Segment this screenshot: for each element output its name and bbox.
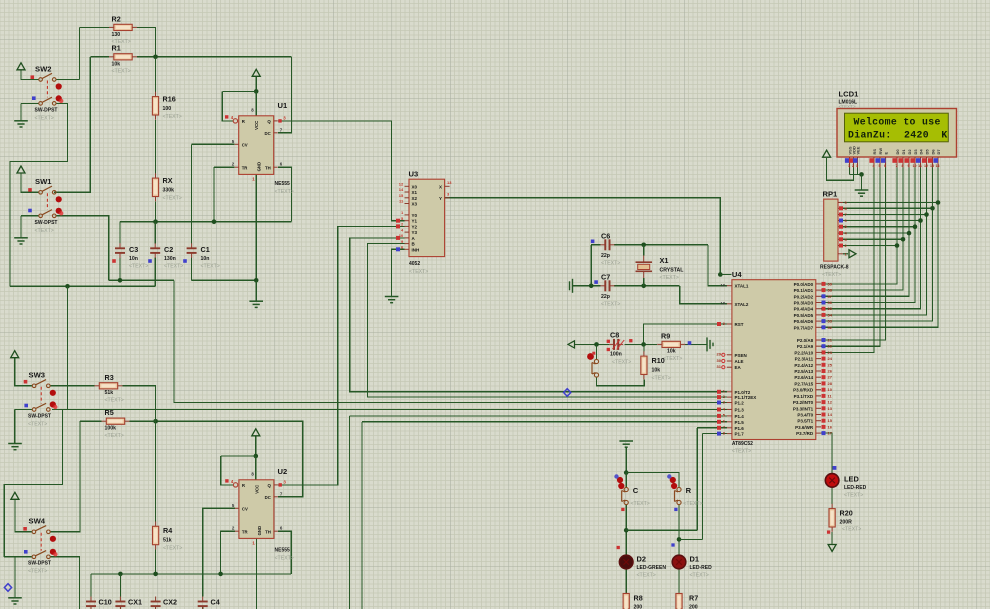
wire U1 Q to U3 Y1 xyxy=(278,121,405,221)
ground terminal below R20 xyxy=(828,545,836,552)
svg-text:P3.5/T1: P3.5/T1 xyxy=(797,419,813,424)
svg-text:15: 15 xyxy=(828,418,833,423)
wire C2 bottom xyxy=(154,258,156,287)
switch SW4 SW-DPST xyxy=(32,526,58,559)
svg-text:DC: DC xyxy=(264,131,270,136)
wire to U2 R bubble xyxy=(221,456,234,485)
svg-text:100: 100 xyxy=(163,106,172,112)
svg-text:<TEXT>: <TEXT> xyxy=(732,449,751,455)
wire U2 TR down xyxy=(221,531,235,574)
capacitor C4 xyxy=(198,597,208,609)
wire ground to C7 xyxy=(573,285,601,287)
svg-text:TR: TR xyxy=(242,529,249,534)
svg-text:XTAL1: XTAL1 xyxy=(735,284,749,289)
svg-text:<TEXT>: <TEXT> xyxy=(163,114,182,120)
svg-text:38: 38 xyxy=(828,288,833,293)
svg-text:200: 200 xyxy=(689,605,698,609)
wire SW3 pole1 to R3 xyxy=(50,385,94,387)
junction RST node xyxy=(641,342,646,347)
push button R xyxy=(675,487,682,504)
svg-text:10n: 10n xyxy=(129,256,138,262)
junction D3/RP1 xyxy=(913,224,918,229)
wire bottom capacitor row xyxy=(91,573,291,575)
svg-text:<TEXT>: <TEXT> xyxy=(601,261,620,267)
junction RX bottom xyxy=(153,219,158,224)
wire SW3 arrow to pole1 xyxy=(15,358,33,386)
svg-text:TR: TR xyxy=(242,165,249,170)
svg-text:D2: D2 xyxy=(637,555,646,564)
svg-text:R1: R1 xyxy=(112,44,121,53)
svg-text:AT89C52: AT89C52 xyxy=(732,441,753,447)
wire down to R16 xyxy=(155,57,157,92)
svg-text:14: 14 xyxy=(828,412,833,417)
svg-text:TH: TH xyxy=(265,165,271,170)
svg-text:15: 15 xyxy=(399,193,404,198)
svg-text:<TEXT>: <TEXT> xyxy=(839,104,856,109)
capacitor CX1 xyxy=(115,597,125,609)
svg-text:19: 19 xyxy=(721,283,726,288)
wire P1.4 drop to edge xyxy=(349,416,351,609)
svg-text:10k: 10k xyxy=(112,62,121,68)
capacitor C6 xyxy=(600,239,614,250)
wire VDD to power arrow xyxy=(827,158,854,180)
svg-text:22p: 22p xyxy=(601,294,610,300)
svg-text:CX2: CX2 xyxy=(163,598,177,607)
wire LCD D5 to U4 P0.5 xyxy=(821,168,927,315)
wire U3 Y2 to U2 Q xyxy=(278,226,405,485)
U2 pin names xyxy=(242,483,272,535)
LED LED xyxy=(825,474,839,488)
svg-text:X2: X2 xyxy=(412,196,418,201)
wire CX2 bottom stub xyxy=(155,606,157,609)
wire U2 CV to C4 xyxy=(203,508,235,596)
resistor R20 xyxy=(829,504,835,532)
svg-text:<TEXT>: <TEXT> xyxy=(822,272,841,278)
resistor R1 xyxy=(109,54,137,60)
wire C7 right xyxy=(614,285,680,287)
junction D6/RP1 xyxy=(930,206,935,211)
wire to U1 R pin bubble xyxy=(222,91,233,121)
svg-text:U4: U4 xyxy=(732,270,742,279)
wire SW2 arrow to pole1 xyxy=(21,70,39,80)
wire RP1 pin1 to power arrow xyxy=(843,253,848,255)
svg-text:100k: 100k xyxy=(105,426,117,432)
svg-text:D4: D4 xyxy=(918,149,923,155)
resistor R8 xyxy=(623,593,629,609)
svg-text:<TEXT>: <TEXT> xyxy=(612,360,631,366)
svg-text:330k: 330k xyxy=(163,188,175,194)
svg-text:X1: X1 xyxy=(660,256,669,265)
svg-text:Y0: Y0 xyxy=(412,213,418,218)
wire RP1 pin 7 to D5 bus xyxy=(843,214,927,216)
svg-text:<TEXT>: <TEXT> xyxy=(35,228,54,234)
svg-text:SW1: SW1 xyxy=(35,177,52,186)
wire button bottom to R10 bottom xyxy=(597,377,645,386)
capacitor C1 xyxy=(187,243,197,258)
svg-text:C8: C8 xyxy=(610,331,619,340)
wire U4 P1.4 row xyxy=(350,415,727,417)
svg-text:PSEN: PSEN xyxy=(735,353,747,358)
wire P1.5 drop to edge xyxy=(361,422,363,609)
svg-text:36: 36 xyxy=(828,300,833,305)
LCD pin labels xyxy=(847,146,941,155)
svg-text:11: 11 xyxy=(918,164,922,168)
svg-text:GND: GND xyxy=(257,526,262,536)
wire long run to U4 P1.2 xyxy=(174,280,727,402)
svg-text:P0.2/AD2: P0.2/AD2 xyxy=(794,294,814,299)
svg-text:200: 200 xyxy=(634,605,643,609)
svg-text:130: 130 xyxy=(112,32,121,38)
wire LCD D3 to U4 P0.3 xyxy=(821,168,915,303)
wire button ground stem xyxy=(625,448,627,473)
wire U2 power arrow stem xyxy=(255,436,257,456)
svg-text:P1.3: P1.3 xyxy=(735,408,745,413)
svg-text:D0: D0 xyxy=(895,149,900,155)
junction Y wire corner xyxy=(718,272,723,277)
svg-text:<TEXT>: <TEXT> xyxy=(690,573,709,579)
junction D5/RP1 xyxy=(924,212,929,217)
power terminal above U1 xyxy=(252,69,260,76)
svg-text:RS: RS xyxy=(872,149,877,155)
wire U1 TR left xyxy=(214,166,235,168)
svg-text:D1: D1 xyxy=(901,149,906,155)
svg-text:LED: LED xyxy=(844,475,859,484)
junction D0/RP1 xyxy=(895,243,900,248)
wire U3 B to U4 P1.1 xyxy=(368,244,727,398)
svg-text:C10: C10 xyxy=(99,598,112,607)
svg-text:P1.2: P1.2 xyxy=(735,401,745,406)
power terminal above SW2 xyxy=(17,63,25,70)
wire RP1 pin 5 to D3 bus xyxy=(843,226,915,228)
svg-text:130n: 130n xyxy=(164,256,176,262)
svg-text:GND: GND xyxy=(257,162,262,172)
svg-text:CRYSTAL: CRYSTAL xyxy=(660,268,685,274)
svg-text:LED-RED: LED-RED xyxy=(690,565,713,571)
power terminal at RP1 pin1 xyxy=(849,250,856,258)
svg-text:9: 9 xyxy=(908,164,910,168)
wire C10 top lead xyxy=(90,574,92,597)
wire SW3 pole2 left xyxy=(15,409,33,411)
svg-text:<TEXT>: <TEXT> xyxy=(409,269,428,275)
wire U4 P3.7 to LED xyxy=(821,433,832,473)
svg-text:<TEXT>: <TEXT> xyxy=(842,527,861,533)
wire R5 to node xyxy=(130,420,156,422)
wire U1 TH down xyxy=(278,167,292,222)
svg-text:NE555: NE555 xyxy=(275,548,291,554)
svg-text:C7: C7 xyxy=(601,273,610,282)
LCD display LCD1 LM016L body xyxy=(837,109,957,158)
wire SW1 pole2 left to ground xyxy=(21,215,39,217)
svg-text:3: 3 xyxy=(856,164,858,168)
wire U3 INH to ground xyxy=(392,249,405,296)
svg-text:RST: RST xyxy=(735,322,744,327)
svg-text:C1: C1 xyxy=(201,245,210,254)
svg-text:R4: R4 xyxy=(163,526,172,535)
svg-text:LED-GREEN: LED-GREEN xyxy=(637,565,667,571)
svg-text:P3.4/T0: P3.4/T0 xyxy=(797,413,813,418)
wire RP1 pin 3 to D1 bus xyxy=(843,238,903,240)
wire R node to P1.7 riser xyxy=(679,538,702,540)
U1 pin numbers xyxy=(225,107,286,181)
svg-text:12: 12 xyxy=(924,164,928,168)
svg-text:X3: X3 xyxy=(412,202,418,207)
wire C2 top xyxy=(154,222,156,244)
svg-text:Y1: Y1 xyxy=(412,219,418,224)
svg-text:<TEXT>: <TEXT> xyxy=(631,501,650,507)
wire SW4 pole1 right xyxy=(50,531,80,533)
svg-text:R5: R5 xyxy=(105,408,114,417)
svg-text:ALE: ALE xyxy=(735,359,744,364)
svg-text:NE555: NE555 xyxy=(275,181,291,187)
wire down to U1 DC pin xyxy=(278,57,292,133)
svg-text:4: 4 xyxy=(873,164,875,168)
svg-text:C6: C6 xyxy=(601,232,610,241)
wire R5 left down to SW4 pole1 xyxy=(56,421,80,532)
LCD screen xyxy=(845,113,949,142)
svg-text:VCC: VCC xyxy=(254,485,259,494)
junction C/P1.6 node xyxy=(624,528,629,533)
wire P1.6 riser xyxy=(696,428,698,531)
wire SW2 pole2 to C2 net xyxy=(10,103,68,286)
svg-text:21: 21 xyxy=(828,338,833,343)
svg-text:25: 25 xyxy=(828,362,833,367)
wire TR down to RX net xyxy=(213,167,215,222)
junction U2 VCC node xyxy=(254,454,259,459)
op-amp/timer U1 NE555 body xyxy=(239,116,274,175)
svg-text:VCC: VCC xyxy=(254,121,259,130)
svg-text:22p: 22p xyxy=(601,253,610,259)
wire reset arrow to C8 xyxy=(575,343,610,345)
svg-text:39: 39 xyxy=(828,281,833,286)
svg-text:<TEXT>: <TEXT> xyxy=(28,422,47,428)
svg-text:R: R xyxy=(686,486,692,495)
wire SW1 pole2 to C3 net xyxy=(56,216,109,280)
capacitor C10 xyxy=(86,597,96,609)
svg-text:<TEXT>: <TEXT> xyxy=(105,433,124,439)
wire C node to P1.6 riser xyxy=(626,529,697,531)
svg-text:D1: D1 xyxy=(690,555,699,564)
wire node down to R4 xyxy=(155,421,157,521)
wire SW1 arrow to pole1 xyxy=(21,173,39,192)
wire C1 to U1 GND node xyxy=(192,279,257,281)
ground terminal left of C7 xyxy=(570,279,573,293)
svg-text:D6: D6 xyxy=(930,149,935,155)
svg-text:P3.6/WR: P3.6/WR xyxy=(795,425,814,430)
svg-text:<TEXT>: <TEXT> xyxy=(164,264,183,270)
svg-text:P2.5/A13: P2.5/A13 xyxy=(794,369,813,374)
wire R16 to RX xyxy=(155,120,157,174)
junction CX1 top xyxy=(118,572,123,577)
wire to reset button xyxy=(596,344,598,359)
svg-text:SW4: SW4 xyxy=(29,517,46,526)
svg-text:P1.4: P1.4 xyxy=(735,414,745,419)
svg-text:30: 30 xyxy=(717,358,722,363)
svg-text:13: 13 xyxy=(930,164,934,168)
U4 left pins xyxy=(717,283,757,437)
junction button top node xyxy=(624,470,629,475)
wire VSS/VEE to ground node xyxy=(850,173,862,175)
svg-text:P2.7/A15: P2.7/A15 xyxy=(794,381,813,386)
wire C3/RX/TR/TH net xyxy=(120,221,292,223)
ground below SW3 xyxy=(8,444,22,450)
junction R1/R2/R16 node xyxy=(153,55,158,60)
wire R2-left down to SW2 pole xyxy=(78,27,80,79)
wire C2 net row xyxy=(10,285,155,287)
wire SW4 pole2 ground drop xyxy=(14,557,16,598)
wire RP1 pin 2 to D0 bus xyxy=(843,245,897,247)
svg-text:XTAL2: XTAL2 xyxy=(735,302,749,307)
svg-text:P0.0/AD0: P0.0/AD0 xyxy=(794,282,814,287)
svg-text:P1.5: P1.5 xyxy=(735,420,745,425)
wire U1 VCC pin 8 xyxy=(255,91,257,115)
capacitor C2 xyxy=(150,243,160,258)
svg-text:P0.6/AD6: P0.6/AD6 xyxy=(794,319,814,324)
wire U1 GND pin down xyxy=(255,174,257,280)
svg-text:10: 10 xyxy=(828,387,833,392)
U2 pin numbers xyxy=(225,471,286,545)
junction TR drop xyxy=(212,219,217,224)
svg-text:D2: D2 xyxy=(907,149,912,155)
svg-text:<TEXT>: <TEXT> xyxy=(601,302,620,308)
svg-text:7: 7 xyxy=(896,164,898,168)
op-amp/timer U2 NE555 body xyxy=(239,480,274,539)
svg-text:<TEXT>: <TEXT> xyxy=(163,196,182,202)
junction button top xyxy=(594,342,599,347)
resistor R9 xyxy=(657,341,685,347)
svg-text:P2.3/A11: P2.3/A11 xyxy=(795,357,814,362)
svg-text:35: 35 xyxy=(828,306,833,311)
svg-text:29: 29 xyxy=(717,352,722,357)
svg-text:SW-DPST: SW-DPST xyxy=(35,220,58,226)
svg-text:<TEXT>: <TEXT> xyxy=(652,376,671,382)
svg-text:<TEXT>: <TEXT> xyxy=(163,546,182,552)
multiplexer U3 4052 body xyxy=(409,179,445,256)
wire C4 bottom stub xyxy=(202,606,204,609)
wire D2 to R8 xyxy=(625,569,627,593)
wire LCD RS to U4 P2.2 xyxy=(821,168,874,353)
resistor R10 xyxy=(641,351,647,379)
svg-text:31: 31 xyxy=(717,364,722,369)
svg-text:10: 10 xyxy=(913,164,917,168)
U4 right pins xyxy=(793,281,833,436)
svg-text:10n: 10n xyxy=(201,256,210,262)
wire to U4 XTAL2 xyxy=(680,286,727,304)
svg-text:DianZu: 2420 K: DianZu: 2420 K xyxy=(848,129,948,140)
svg-text:18: 18 xyxy=(721,301,726,306)
svg-text:P2.4/A12: P2.4/A12 xyxy=(794,363,813,368)
svg-text:P0.7/AD7: P0.7/AD7 xyxy=(794,325,814,330)
svg-text:P0.1/AD1: P0.1/AD1 xyxy=(794,288,814,293)
svg-text:SW3: SW3 xyxy=(29,371,45,380)
wire to C button top xyxy=(625,473,627,488)
svg-text:C2: C2 xyxy=(164,245,173,254)
U3 right pins xyxy=(439,180,452,201)
RP1 pins xyxy=(838,200,848,256)
power terminal at LCD VDD xyxy=(823,150,831,157)
svg-text:D3: D3 xyxy=(913,149,918,155)
wire LED to R20 xyxy=(831,488,833,504)
svg-text:C4: C4 xyxy=(211,598,220,607)
wire RP1 pin 8 to D6 bus xyxy=(843,207,933,209)
wire U4 P1.5 row xyxy=(362,421,727,423)
svg-text:DC: DC xyxy=(265,495,271,500)
svg-text:51k: 51k xyxy=(163,538,172,544)
wire SW1 ground drop xyxy=(20,216,22,238)
capacitor C7 xyxy=(600,280,614,291)
svg-text:1: 1 xyxy=(848,164,850,168)
svg-text:U1: U1 xyxy=(278,101,288,110)
svg-text:D5: D5 xyxy=(924,149,929,155)
svg-text:13: 13 xyxy=(828,406,833,411)
junction R/P1.7 node xyxy=(677,537,682,542)
LED D1 xyxy=(672,555,686,569)
svg-text:C: C xyxy=(633,486,639,495)
svg-text:14: 14 xyxy=(399,187,404,192)
svg-text:200R: 200R xyxy=(840,520,853,526)
svg-text:16: 16 xyxy=(828,424,833,429)
wire down to R10 xyxy=(643,344,645,351)
ground below SW4 xyxy=(8,598,22,604)
svg-text:2: 2 xyxy=(852,164,854,168)
capacitor C3 xyxy=(115,243,125,258)
svg-text:P3.0/RXD: P3.0/RXD xyxy=(793,388,814,393)
junction D4/RP1 xyxy=(918,218,923,223)
wire U2 DC to R5 row xyxy=(156,421,303,497)
svg-text:TH: TH xyxy=(265,529,271,534)
svg-text:<TEXT>: <TEXT> xyxy=(201,264,220,270)
wire down to C3 top xyxy=(119,222,121,244)
svg-text:LCD1: LCD1 xyxy=(839,90,860,99)
svg-text:<TEXT>: <TEXT> xyxy=(637,573,656,579)
wire LCD D0 to U4 P0.0 xyxy=(821,168,897,284)
wire SW2 pole2 left to ground xyxy=(21,102,39,104)
svg-text:10k: 10k xyxy=(652,368,661,374)
junction TR drop bottom xyxy=(218,572,223,577)
svg-text:27: 27 xyxy=(828,375,833,380)
svg-text:14: 14 xyxy=(936,164,940,168)
wire CX1 bottom stub xyxy=(119,606,121,609)
svg-text:R10: R10 xyxy=(652,356,665,365)
wire SW4 pole2 left xyxy=(15,556,32,558)
wire P1.7 riser xyxy=(701,434,703,540)
svg-text:X1: X1 xyxy=(412,190,418,195)
svg-text:<TEXT>: <TEXT> xyxy=(129,264,148,270)
svg-text:R9: R9 xyxy=(661,332,670,341)
wire U3 Y long run xyxy=(445,198,721,275)
resistor RX xyxy=(152,173,158,201)
wire RX down to TR net xyxy=(155,201,157,221)
push button C xyxy=(622,487,629,504)
ground above C/R buttons xyxy=(619,441,633,447)
wire VSS down xyxy=(849,168,851,175)
wire U2 VCC to reset branch xyxy=(221,455,256,457)
wire R2 left lead run xyxy=(79,26,109,28)
svg-text:P3.3/INT1: P3.3/INT1 xyxy=(793,406,814,411)
svg-text:P3.2/INT0: P3.2/INT0 xyxy=(793,400,814,405)
svg-text:X0: X0 xyxy=(412,184,418,189)
svg-text:VEE: VEE xyxy=(855,146,860,154)
LCD pin stubs and number squares xyxy=(845,157,940,168)
wire crystal bottom lead xyxy=(643,278,645,286)
wire C6 right to XTAL1 drop xyxy=(614,244,708,246)
wire SW4 pole2 right to edge xyxy=(50,557,79,609)
wire SW2 ground drop xyxy=(20,103,22,120)
svg-text:6: 6 xyxy=(884,164,886,168)
svg-text:X: X xyxy=(439,185,442,190)
wire SW4 arrow to pole1 xyxy=(15,500,32,532)
wire crystal top lead xyxy=(643,245,645,256)
svg-text:17: 17 xyxy=(828,431,833,436)
